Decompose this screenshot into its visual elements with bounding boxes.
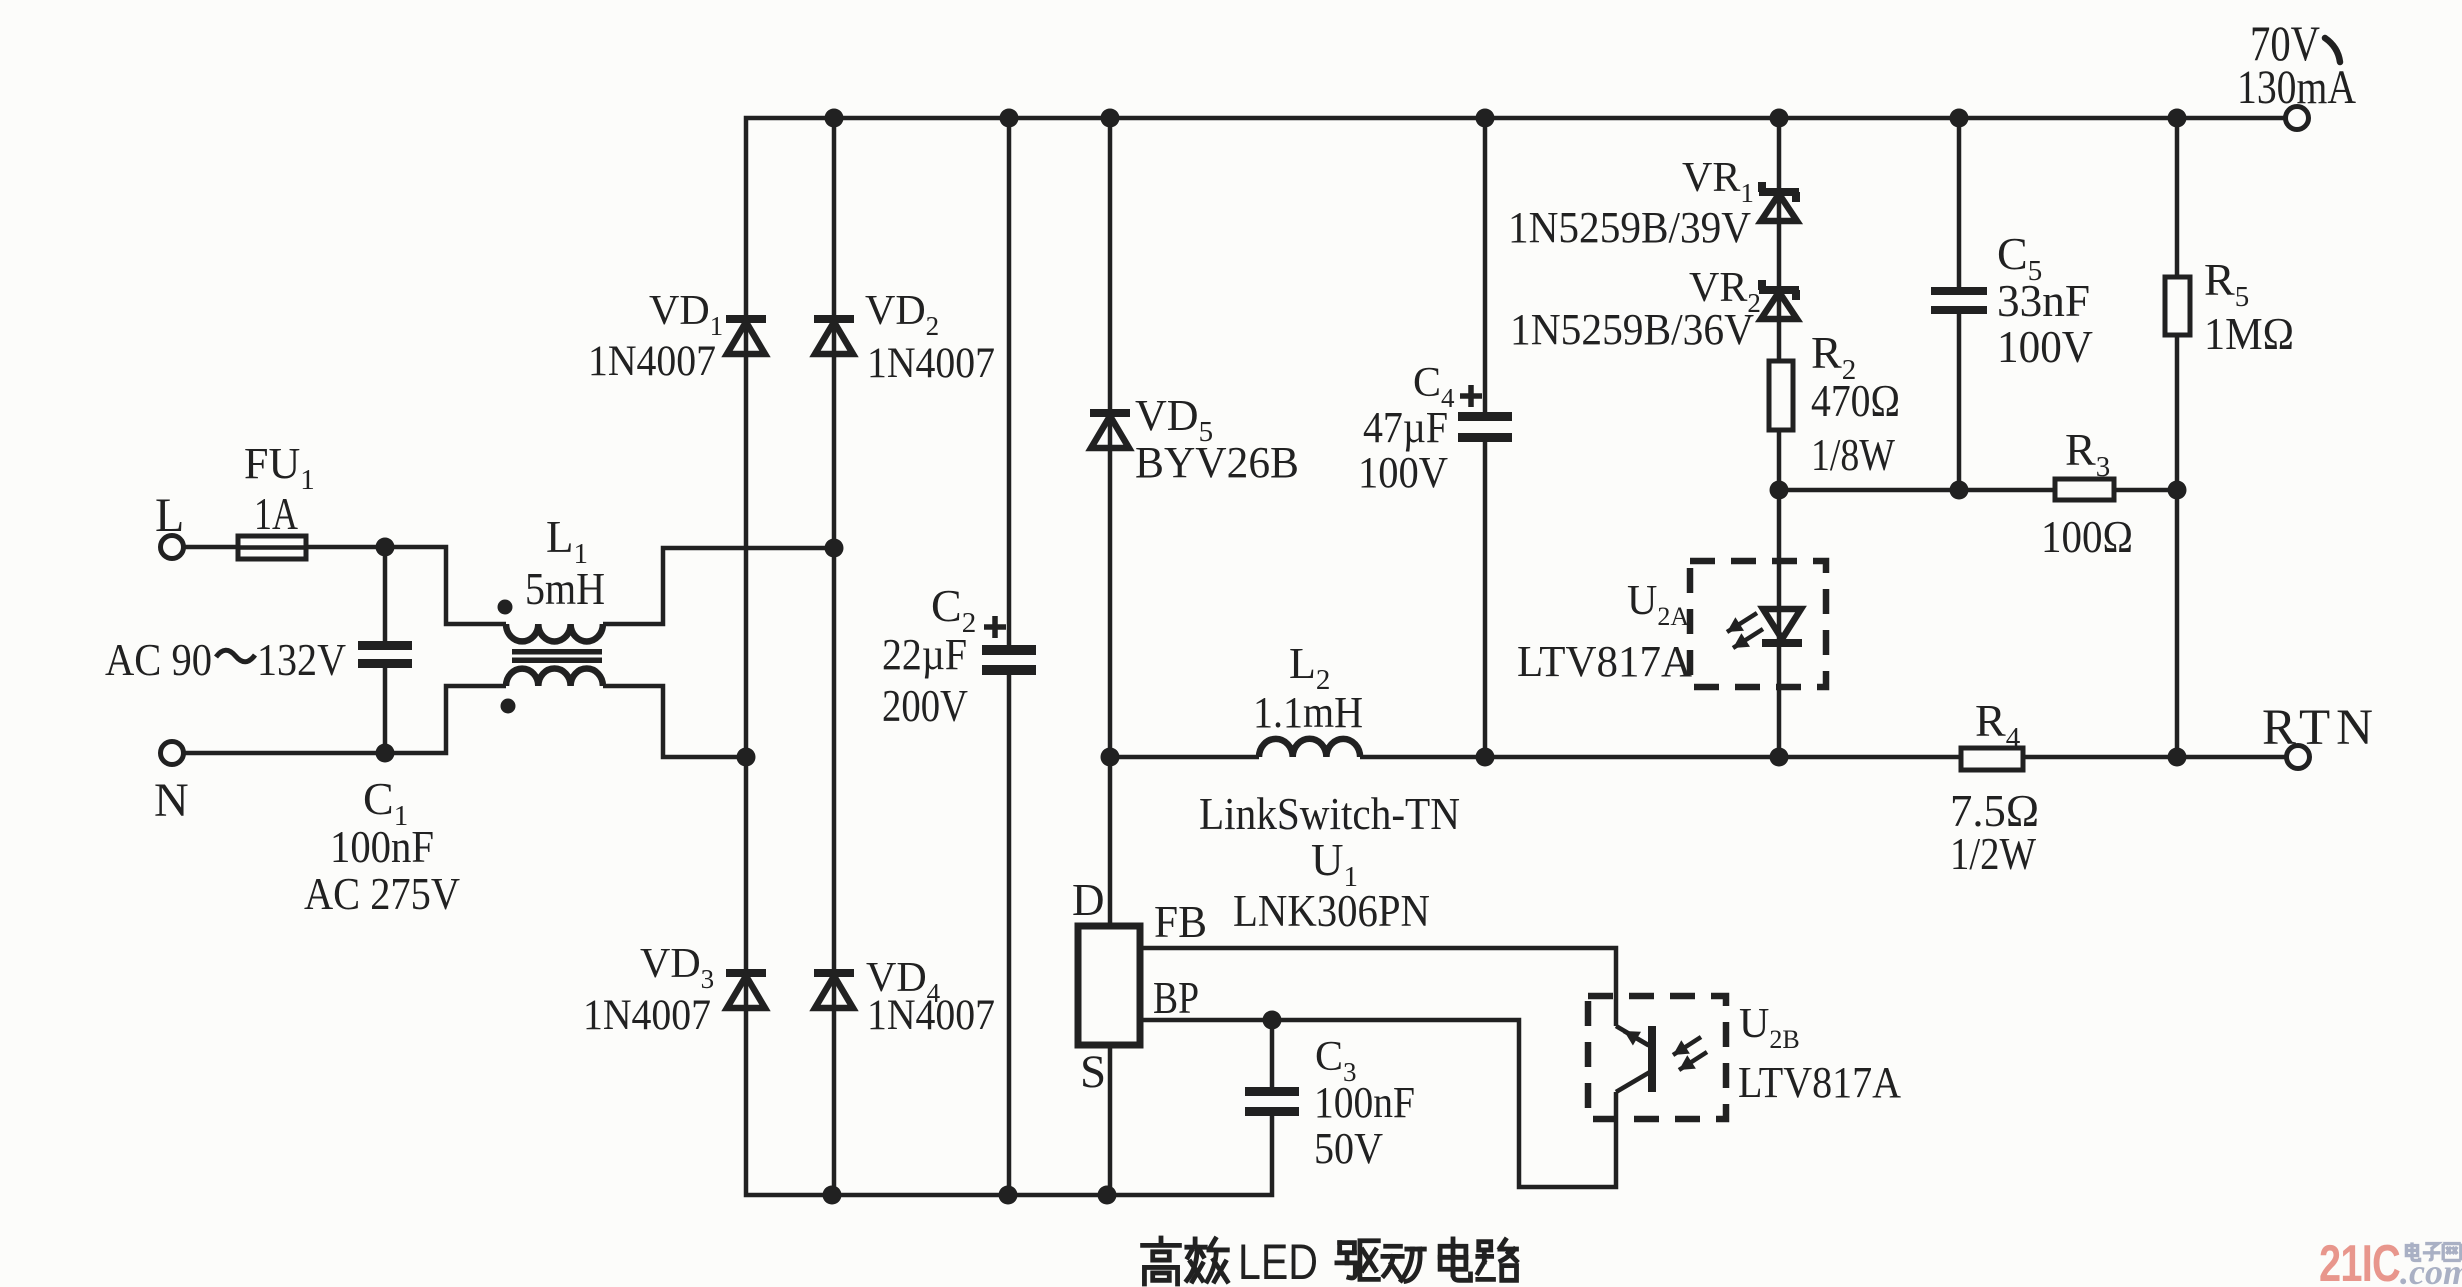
svg-text:21IC: 21IC	[2319, 1235, 2400, 1287]
svg-text:100nF: 100nF	[330, 821, 434, 872]
svg-text:200V: 200V	[882, 681, 968, 731]
svg-text:100Ω: 100Ω	[2041, 511, 2133, 562]
svg-text:1N4007: 1N4007	[867, 992, 995, 1039]
svg-text:BP: BP	[1153, 973, 1199, 1023]
svg-text:AC 90: AC 90	[105, 634, 212, 685]
svg-text:1N4007: 1N4007	[583, 992, 711, 1039]
svg-text:47µF: 47µF	[1363, 403, 1448, 452]
svg-text:100V: 100V	[1358, 448, 1448, 497]
svg-text:LTV817A: LTV817A	[1738, 1058, 1901, 1107]
svg-text:5mH: 5mH	[525, 563, 605, 614]
svg-text:100V: 100V	[1997, 321, 2093, 372]
svg-text:1MΩ: 1MΩ	[2204, 308, 2294, 359]
svg-text:1.1mH: 1.1mH	[1253, 688, 1363, 737]
svg-text:LNK306PN: LNK306PN	[1233, 886, 1430, 936]
svg-text:132V: 132V	[257, 634, 346, 685]
svg-text:LED: LED	[1238, 1234, 1318, 1287]
svg-text:L: L	[155, 489, 184, 542]
svg-text:LinkSwitch-TN: LinkSwitch-TN	[1199, 788, 1460, 839]
svg-text:1N5259B/39V: 1N5259B/39V	[1508, 203, 1751, 252]
svg-text:1A: 1A	[254, 488, 298, 539]
svg-text:22µF: 22µF	[882, 630, 967, 679]
svg-text:1N4007: 1N4007	[867, 340, 995, 387]
svg-text:RTN: RTN	[2262, 700, 2379, 756]
svg-text:1/8W: 1/8W	[1811, 429, 1895, 480]
svg-text:470Ω: 470Ω	[1811, 375, 1900, 426]
svg-text:N: N	[154, 774, 189, 827]
svg-text:BYV26B: BYV26B	[1135, 438, 1299, 487]
svg-text:1N5259B/36V: 1N5259B/36V	[1510, 305, 1754, 354]
svg-text:AC 275V: AC 275V	[304, 868, 460, 919]
svg-text:FB: FB	[1154, 897, 1207, 947]
svg-text:50V: 50V	[1314, 1124, 1383, 1173]
svg-text:1N4007: 1N4007	[588, 338, 716, 385]
svg-text:D: D	[1072, 875, 1105, 925]
svg-text:1/2W: 1/2W	[1950, 828, 2036, 879]
svg-text:.com: .com	[2400, 1252, 2462, 1287]
svg-text:LTV817A: LTV817A	[1517, 637, 1692, 686]
svg-text:S: S	[1080, 1046, 1106, 1098]
svg-text:33nF: 33nF	[1997, 275, 2090, 326]
svg-text:130mA: 130mA	[2237, 61, 2356, 114]
svg-text:100nF: 100nF	[1314, 1078, 1415, 1127]
